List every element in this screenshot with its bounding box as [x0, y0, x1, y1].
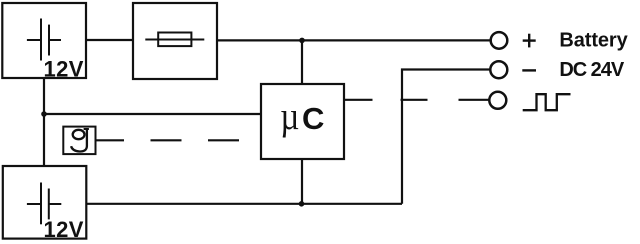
battery B1 box: [2, 3, 86, 78]
wire bottom rail up to minus terminal: [402, 70, 491, 204]
plus sign: [523, 34, 536, 48]
terminal circle - DC24V: [490, 61, 507, 78]
minus sign: [522, 69, 536, 71]
battery B1 symbol: [27, 19, 61, 61]
terminal circle + Battery: [491, 32, 508, 49]
op: microcontroller U1 box: [261, 84, 344, 159]
wire junction above microcontroller to + rail: [301, 40, 303, 84]
terminal circle pulse output: [489, 92, 506, 109]
junction node bottom rail: [299, 201, 305, 207]
battery B2 box: [3, 166, 87, 239]
wire B1 to fuse: [86, 39, 133, 41]
svg-text:µ: µ: [280, 94, 299, 137]
wire fuse to + terminal: [217, 39, 491, 41]
temperature sensor box: [63, 127, 95, 155]
junction node left input: [41, 111, 47, 117]
fuse F1 symbol: [145, 33, 204, 47]
wire microcontroller bottom: [301, 159, 303, 204]
wire vertical B1 to B2: [43, 78, 45, 166]
pulse waveform symbol: [523, 94, 571, 110]
label theta sensor: [71, 129, 89, 152]
battery B2 symbol: [27, 183, 61, 225]
wire B2 bottom rail: [86, 203, 402, 205]
svg-text:Battery: Battery: [559, 30, 628, 52]
fuse F1 box: [133, 3, 217, 79]
junction node above microcontroller: [299, 38, 305, 44]
svg-text:12V: 12V: [44, 57, 84, 82]
label uC: [280, 94, 299, 137]
svg-text:DC 24V: DC 24V: [559, 59, 624, 81]
wire dashed sensor to microcontroller: [96, 139, 254, 141]
wire dashed microcontroller output: [344, 99, 489, 101]
wire left input to microcontroller: [44, 113, 261, 115]
svg-text:12V: 12V: [44, 217, 84, 242]
svg-text:C: C: [302, 101, 324, 136]
